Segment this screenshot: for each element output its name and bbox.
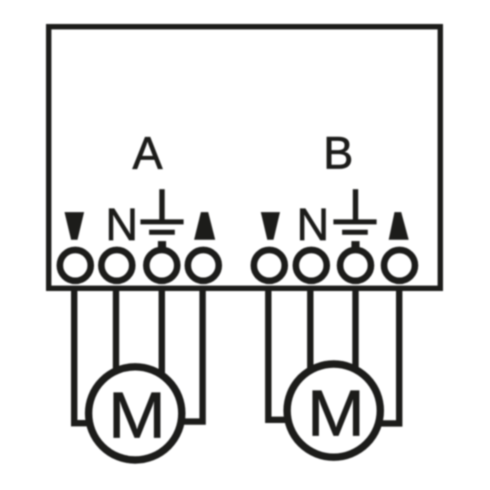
wire B3 (earth terminal to motor M2 top-right): [352, 288, 358, 368]
terminal B2: [296, 250, 327, 281]
wire A3 (earth terminal to motor M1 top-right): [159, 288, 165, 373]
wire A2 (N terminal to motor M1 top-left): [113, 288, 119, 370]
wire B4 (up-arrow terminal to motor M2 right): [381, 288, 399, 423]
wire A1 (down-arrow terminal to motor M1 left): [74, 288, 92, 423]
up arrow channel A: [194, 212, 215, 240]
terminal A1: [60, 250, 91, 281]
motor M1: [89, 367, 182, 460]
terminal A4: [188, 250, 219, 281]
terminal A3: [146, 250, 177, 281]
motor M2: [287, 364, 380, 457]
wire B1 (down-arrow terminal to motor M2 left): [268, 288, 288, 420]
terminal B4: [384, 250, 415, 281]
svg-text:B: B: [323, 128, 353, 179]
wire A4 (up-arrow terminal to motor M1 right): [181, 288, 203, 422]
svg-text:A: A: [132, 128, 162, 179]
terminal B3: [340, 250, 371, 281]
svg-text:N: N: [297, 199, 330, 250]
earth symbol channel B: [333, 189, 376, 252]
up arrow channel B: [389, 212, 409, 240]
svg-text:M: M: [108, 379, 166, 452]
terminal B1: [254, 250, 285, 281]
down arrow channel A: [65, 212, 85, 240]
svg-text:N: N: [106, 199, 139, 250]
wire B2 (N terminal to motor M2 top-left): [307, 288, 313, 369]
earth symbol channel A: [140, 189, 183, 252]
terminal A2: [101, 250, 132, 281]
device enclosure box: [49, 27, 441, 289]
down arrow channel B: [261, 212, 280, 240]
svg-text:M: M: [307, 378, 365, 451]
